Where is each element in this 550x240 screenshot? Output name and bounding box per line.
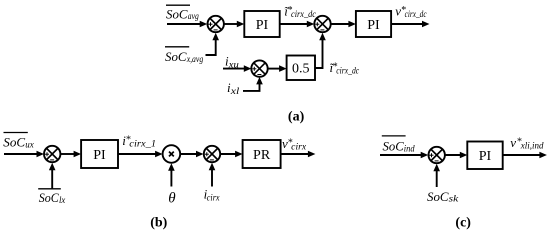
svg-text:avg: avg — [188, 11, 199, 21]
summer S4 — [44, 146, 60, 162]
svg-text:xli,ind: xli,ind — [520, 141, 544, 151]
node SoC_ind (overlined label) — [382, 136, 415, 154]
svg-text:PI: PI — [256, 18, 269, 33]
svg-text:xl: xl — [229, 86, 239, 96]
svg-text:cirx: cirx — [291, 142, 306, 152]
wire 0.5 to S2 bottom — [315, 33, 326, 68]
summer S3 — [251, 60, 267, 76]
node i_cirx label — [204, 187, 220, 203]
block PI3 — [81, 140, 118, 168]
svg-text:cirx_dc: cirx_dc — [405, 9, 427, 19]
wire i_xl to S3 bottom — [243, 77, 263, 91]
wire S3 to block 0.5 — [268, 65, 287, 72]
svg-text:SoC: SoC — [383, 138, 405, 153]
block PI1 — [244, 11, 279, 37]
multiplier M1 — [163, 145, 181, 163]
svg-text:SoC: SoC — [39, 190, 59, 205]
svg-text:SoC: SoC — [166, 6, 188, 21]
svg-text:(a): (a) — [288, 110, 305, 125]
svg-text:PI: PI — [479, 149, 492, 164]
svg-text:(b): (b) — [150, 215, 167, 230]
svg-text:SoC: SoC — [165, 49, 187, 64]
wire i_cirx to S5 bottom — [209, 163, 216, 187]
svg-text:x,avg: x,avg — [186, 54, 204, 64]
node SoC_x,avg (overlined label) — [165, 47, 204, 64]
svg-text:cirx_dc: cirx_dc — [291, 9, 316, 19]
summer S5 — [204, 146, 220, 162]
node i~*_cirx_dc label (at 0.5 output) — [330, 60, 360, 76]
svg-text:SoC: SoC — [3, 135, 25, 150]
node SoC_avg (overlined label) — [166, 5, 199, 21]
node i_xu label — [225, 53, 239, 69]
svg-text:PR: PR — [253, 148, 271, 163]
wire PR output v*_cirx — [281, 151, 316, 158]
wire PI4 output v*_xli,ind — [503, 152, 547, 159]
wire PI1 to summer S2 — [280, 21, 315, 28]
summer S1 — [208, 16, 224, 32]
svg-text:θ: θ — [168, 190, 176, 206]
svg-text:cirx_1: cirx_1 — [129, 138, 156, 148]
wire SoC_sk to S6 bottom — [433, 164, 440, 187]
wire S5 to block PR — [220, 151, 242, 158]
svg-text:(c): (c) — [455, 215, 471, 230]
node SoC_ux (overlined label) — [3, 133, 34, 150]
wire S6 to block PI4 — [445, 152, 467, 159]
wire SoC_ind to summer S6 — [380, 152, 428, 159]
summer S6 — [429, 147, 445, 163]
svg-text:lx: lx — [59, 195, 65, 205]
wire SoC_avg to summer S1 — [167, 21, 207, 28]
block PI4 — [467, 142, 502, 170]
svg-text:ind: ind — [404, 143, 415, 153]
svg-text:cirx_dc: cirx_dc — [336, 66, 359, 76]
wire SoC_x,avg to S1 bottom — [206, 33, 220, 55]
svg-text:cirx: cirx — [207, 192, 220, 202]
node v*_cirx_dc label — [395, 4, 426, 20]
wire S2 to block PI2 — [331, 21, 356, 28]
svg-text:SoC: SoC — [427, 189, 449, 204]
block PI2 — [356, 11, 391, 37]
wire M1 to summer S5 — [180, 151, 203, 158]
wire SoC_ux to summer S4 — [4, 151, 44, 158]
node SoC_sk label — [427, 189, 459, 204]
svg-text:PI: PI — [367, 18, 380, 33]
wire S4 to block PI3 — [60, 151, 81, 158]
block 0.5 — [287, 56, 315, 81]
wire S1 to block PI1 — [224, 21, 244, 28]
node v*_xli,ind label — [510, 135, 544, 151]
svg-text:ux: ux — [25, 140, 34, 150]
wire SoC_lx to S4 bottom — [49, 163, 56, 189]
node i~*_cirx_dc label — [284, 3, 316, 19]
wire PI3 to multiplier M1 — [118, 151, 163, 158]
svg-text:PI: PI — [93, 148, 106, 163]
node SoC_lx (overlined label) — [38, 189, 65, 205]
svg-text:0.5: 0.5 — [292, 61, 310, 76]
svg-text:sk: sk — [449, 194, 460, 204]
block PR — [243, 140, 281, 168]
node i_xl label — [227, 80, 240, 96]
node i*_cirx_1 label — [122, 133, 156, 149]
svg-text:v: v — [510, 135, 516, 150]
wire i_xu to summer S3 — [223, 65, 251, 72]
wire PI2 output v*_cirx_dc — [391, 21, 429, 28]
wire theta to M1 bottom — [168, 163, 175, 186]
node v*_cirx label — [282, 136, 306, 152]
summer S2 — [314, 16, 330, 32]
